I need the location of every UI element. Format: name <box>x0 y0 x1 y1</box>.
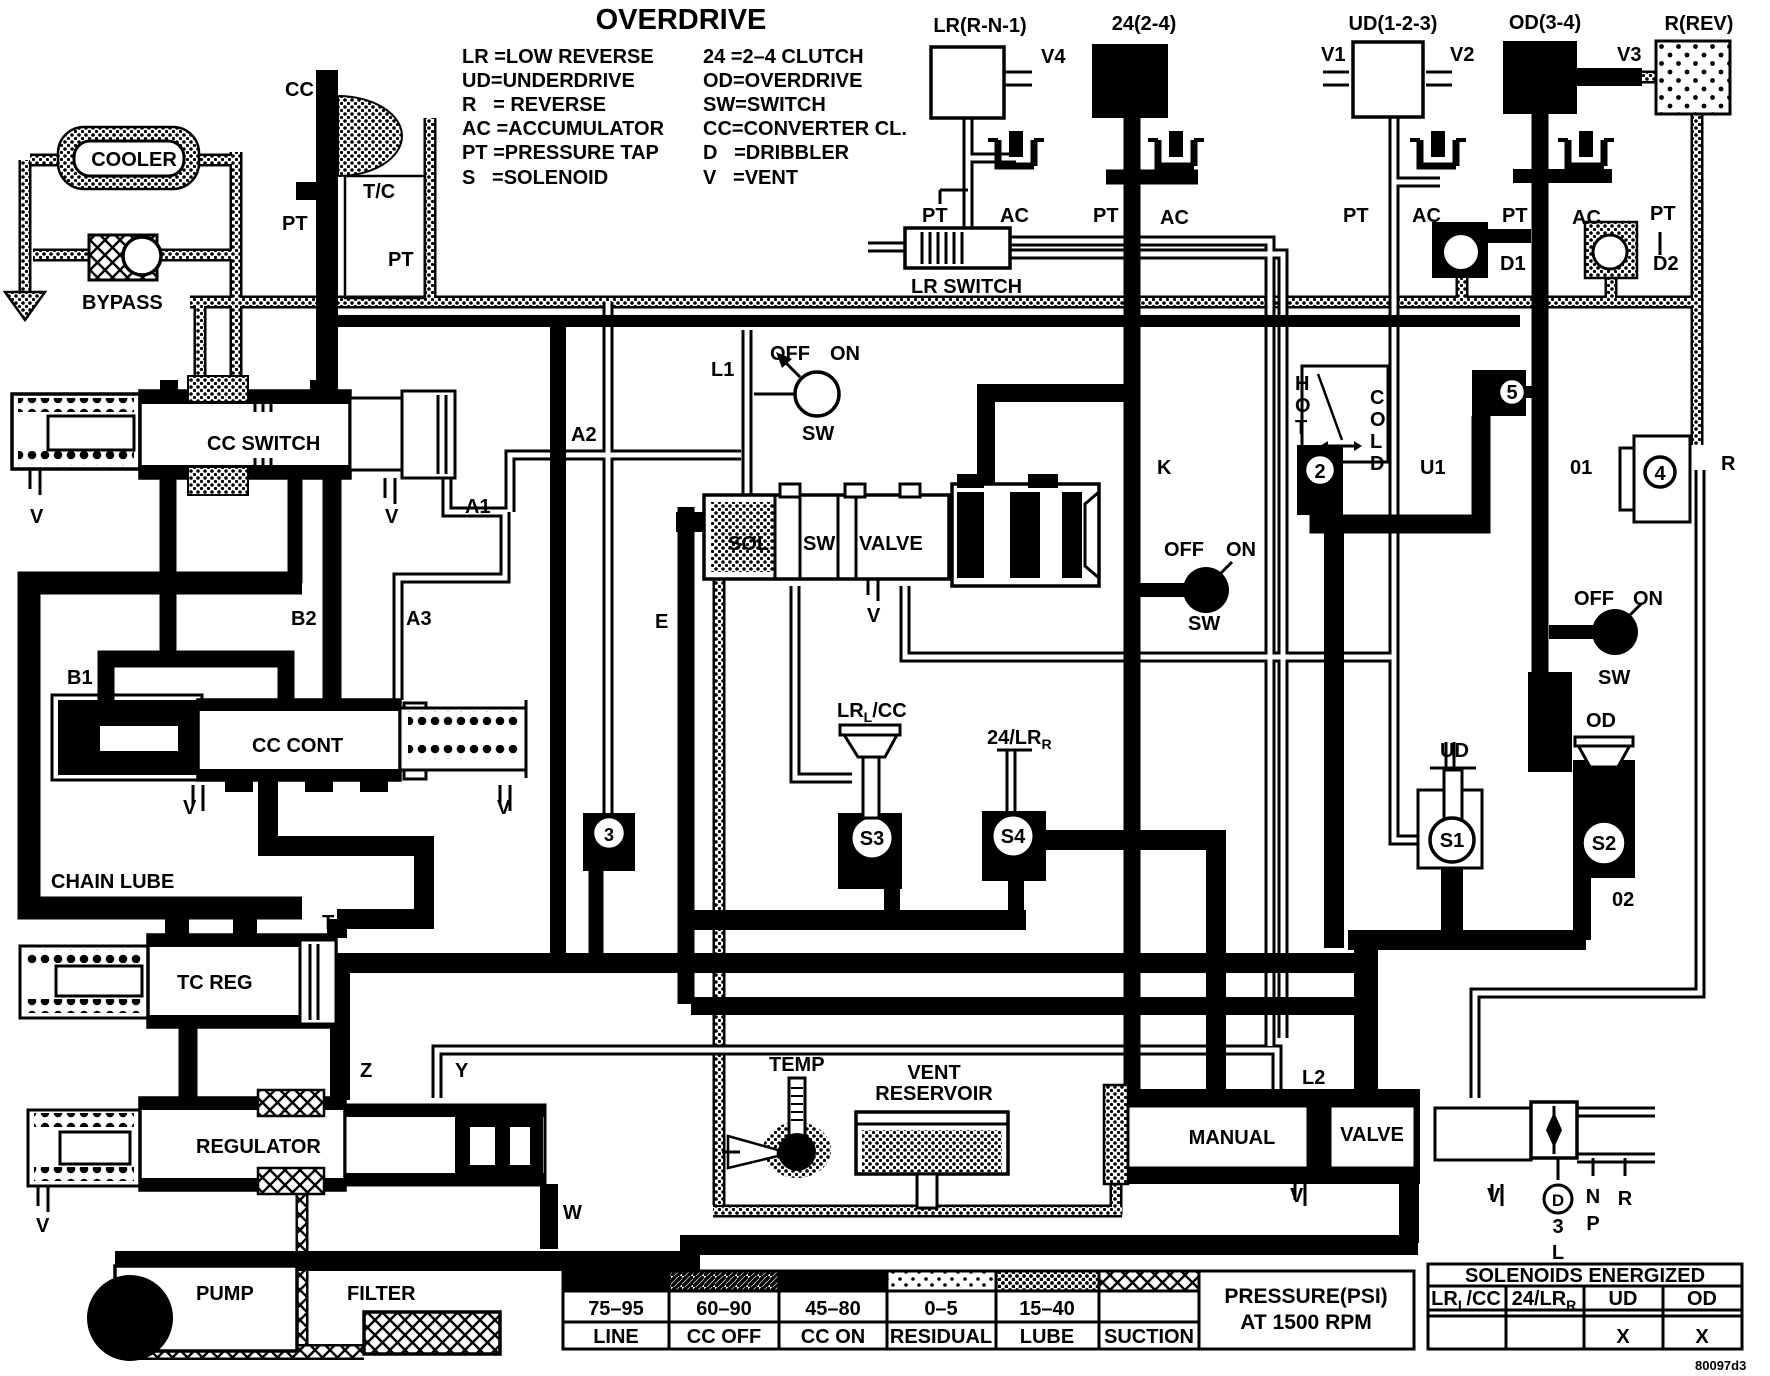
svg-text:V: V <box>497 797 511 819</box>
svg-text:A2: A2 <box>571 424 597 446</box>
svg-text:5: 5 <box>1506 382 1517 404</box>
svg-text:CC ON: CC ON <box>801 1326 865 1348</box>
svg-text:PT: PT <box>282 213 308 235</box>
svg-text:VALVE: VALVE <box>1340 1124 1404 1146</box>
svg-text:0–5: 0–5 <box>924 1298 957 1320</box>
svg-text:RESIDUAL: RESIDUAL <box>890 1326 992 1348</box>
svg-text:V: V <box>36 1215 50 1237</box>
svg-text:S2: S2 <box>1592 833 1616 855</box>
svg-text:VALVE: VALVE <box>859 533 923 555</box>
svg-text:SW=SWITCH: SW=SWITCH <box>703 94 826 116</box>
svg-text:SW: SW <box>1598 667 1630 689</box>
svg-text:V3: V3 <box>1617 44 1641 66</box>
svg-text:B2: B2 <box>291 608 317 630</box>
svg-text:LRL/CC: LRL/CC <box>1431 1288 1501 1313</box>
svg-text:PT: PT <box>388 249 414 271</box>
svg-text:TC REG: TC REG <box>177 972 253 994</box>
svg-text:MANUAL: MANUAL <box>1189 1127 1276 1149</box>
svg-text:LINE: LINE <box>593 1326 639 1348</box>
svg-text:60–90: 60–90 <box>696 1298 752 1320</box>
svg-text:ON: ON <box>830 343 860 365</box>
svg-text:A1: A1 <box>465 496 491 518</box>
svg-text:PT: PT <box>1343 205 1369 227</box>
svg-text:UD=UNDERDRIVE: UD=UNDERDRIVE <box>462 70 635 92</box>
svg-text:LR =LOW REVERSE: LR =LOW REVERSE <box>462 46 654 68</box>
svg-text:V1: V1 <box>1321 44 1345 66</box>
svg-text:R: R <box>1618 1188 1633 1210</box>
svg-text:L2: L2 <box>1302 1067 1325 1089</box>
svg-text:UD(1-2-3): UD(1-2-3) <box>1349 13 1438 35</box>
svg-text:ON: ON <box>1633 588 1663 610</box>
svg-text:V: V <box>1290 1185 1304 1207</box>
svg-text:V4: V4 <box>1041 46 1066 68</box>
svg-text:OFF: OFF <box>1164 539 1204 561</box>
svg-text:COOLER: COOLER <box>91 149 177 171</box>
svg-text:LR(R-N-1): LR(R-N-1) <box>933 15 1026 37</box>
svg-text:V: V <box>1487 1185 1501 1207</box>
svg-text:BYPASS: BYPASS <box>82 292 163 314</box>
svg-text:OD=OVERDRIVE: OD=OVERDRIVE <box>703 70 862 92</box>
svg-text:E: E <box>655 611 668 633</box>
svg-text:L: L <box>1370 431 1382 453</box>
svg-text:OD(3-4): OD(3-4) <box>1509 12 1581 34</box>
svg-text:B1: B1 <box>67 667 93 689</box>
svg-text:T: T <box>1295 417 1307 439</box>
svg-text:T: T <box>322 912 334 934</box>
svg-text:LRL/CC: LRL/CC <box>837 700 907 725</box>
svg-text:VENT: VENT <box>907 1062 960 1084</box>
svg-text:V: V <box>385 506 399 528</box>
svg-text:OFF: OFF <box>770 343 810 365</box>
svg-text:TEMP: TEMP <box>769 1054 825 1076</box>
svg-text:S =SOLENOID: S =SOLENOID <box>462 167 608 189</box>
svg-text:V =VENT: V =VENT <box>703 167 798 189</box>
svg-text:SOLENOIDS ENERGIZED: SOLENOIDS ENERGIZED <box>1465 1265 1705 1287</box>
svg-text:N: N <box>1586 1186 1600 1208</box>
svg-text:U1: U1 <box>1420 457 1446 479</box>
svg-text:OD: OD <box>1586 710 1616 732</box>
svg-text:CC OFF: CC OFF <box>687 1326 761 1348</box>
svg-text:UD: UD <box>1440 740 1469 762</box>
svg-text:24(2-4): 24(2-4) <box>1112 13 1176 35</box>
svg-text:S4: S4 <box>1001 826 1026 848</box>
svg-text:R(REV): R(REV) <box>1665 13 1734 35</box>
svg-text:LR SWITCH: LR SWITCH <box>911 276 1022 298</box>
svg-text:PT: PT <box>1502 205 1528 227</box>
svg-text:SW: SW <box>1188 613 1220 635</box>
svg-text:CC SWITCH: CC SWITCH <box>207 433 320 455</box>
svg-text:AC: AC <box>1160 207 1189 229</box>
svg-text:AC: AC <box>1000 205 1029 227</box>
svg-text:Y: Y <box>455 1060 469 1082</box>
svg-text:CC=CONVERTER CL.: CC=CONVERTER CL. <box>703 118 907 140</box>
svg-text:X: X <box>1616 1326 1630 1348</box>
svg-text:K: K <box>1157 457 1172 479</box>
svg-text:PT: PT <box>922 205 948 227</box>
svg-text:75–95: 75–95 <box>588 1298 644 1320</box>
svg-text:V: V <box>867 605 881 627</box>
svg-text:AC =ACCUMULATOR: AC =ACCUMULATOR <box>462 118 665 140</box>
svg-text:AC: AC <box>1572 207 1601 229</box>
svg-text:2: 2 <box>1314 461 1325 483</box>
svg-text:R: R <box>1721 453 1736 475</box>
svg-text:AC: AC <box>1412 205 1441 227</box>
svg-text:SW: SW <box>803 533 835 555</box>
svg-text:PT =PRESSURE TAP: PT =PRESSURE TAP <box>462 142 659 164</box>
svg-text:SW: SW <box>802 423 834 445</box>
svg-text:OVERDRIVE: OVERDRIVE <box>596 4 767 36</box>
svg-text:OFF: OFF <box>1574 588 1614 610</box>
svg-text:OD: OD <box>1687 1288 1717 1310</box>
svg-text:3: 3 <box>604 825 614 845</box>
svg-text:ON: ON <box>1226 539 1256 561</box>
svg-text:80097d3: 80097d3 <box>1695 1358 1746 1373</box>
svg-text:4: 4 <box>1654 463 1666 485</box>
svg-text:CHAIN LUBE: CHAIN LUBE <box>51 871 174 893</box>
svg-text:PRESSURE(PSI): PRESSURE(PSI) <box>1224 1285 1387 1308</box>
svg-text:CC: CC <box>285 79 314 101</box>
svg-text:V2: V2 <box>1450 44 1474 66</box>
svg-text:L1: L1 <box>711 359 734 381</box>
svg-text:A3: A3 <box>406 608 432 630</box>
svg-text:D2: D2 <box>1653 253 1679 275</box>
svg-text:FILTER: FILTER <box>347 1283 416 1305</box>
svg-text:D: D <box>1552 1191 1564 1210</box>
svg-text:V: V <box>183 797 197 819</box>
svg-text:PT: PT <box>1093 205 1119 227</box>
svg-text:UD: UD <box>1609 1288 1638 1310</box>
svg-text:Z: Z <box>360 1060 372 1082</box>
svg-text:PUMP: PUMP <box>196 1283 254 1305</box>
svg-text:X: X <box>1695 1326 1709 1348</box>
svg-text:D =DRIBBLER: D =DRIBBLER <box>703 142 850 164</box>
svg-text:V: V <box>30 506 44 528</box>
svg-text:O: O <box>1370 409 1386 431</box>
svg-text:LUBE: LUBE <box>1020 1326 1074 1348</box>
svg-text:T/C: T/C <box>363 181 395 203</box>
svg-text:D1: D1 <box>1500 253 1526 275</box>
svg-text:D: D <box>1370 453 1384 475</box>
svg-text:H: H <box>1295 373 1309 395</box>
svg-text:24 =2–4 CLUTCH: 24 =2–4 CLUTCH <box>703 46 864 68</box>
svg-text:L: L <box>1552 1242 1564 1264</box>
svg-text:R = REVERSE: R = REVERSE <box>462 94 606 116</box>
svg-text:01: 01 <box>1570 457 1592 479</box>
svg-text:O: O <box>1295 395 1311 417</box>
svg-text:AT 1500 RPM: AT 1500 RPM <box>1240 1311 1372 1334</box>
svg-text:S1: S1 <box>1440 830 1464 852</box>
svg-text:S3: S3 <box>860 828 884 850</box>
svg-text:P: P <box>1586 1213 1599 1235</box>
svg-text:RESERVOIR: RESERVOIR <box>875 1083 993 1105</box>
svg-text:SOL: SOL <box>728 533 769 555</box>
svg-text:15–40: 15–40 <box>1019 1298 1075 1320</box>
svg-text:CC CONT: CC CONT <box>252 735 343 757</box>
svg-text:REGULATOR: REGULATOR <box>196 1136 321 1158</box>
svg-text:02: 02 <box>1612 889 1634 911</box>
svg-text:SUCTION: SUCTION <box>1104 1326 1194 1348</box>
svg-text:45–80: 45–80 <box>805 1298 861 1320</box>
svg-text:3: 3 <box>1552 1216 1563 1238</box>
svg-text:W: W <box>563 1202 582 1224</box>
svg-text:PT: PT <box>1650 203 1676 225</box>
svg-text:C: C <box>1370 387 1384 409</box>
